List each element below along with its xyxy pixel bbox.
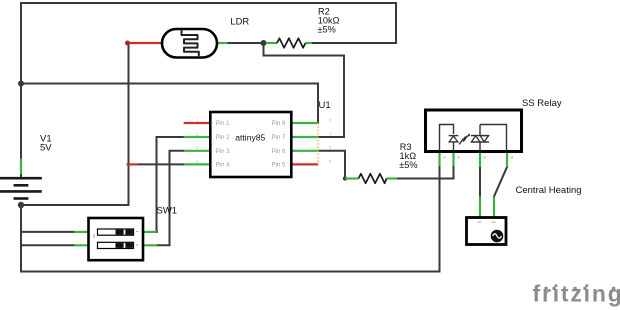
svg-text:5V: 5V — [40, 143, 52, 154]
svg-text:LDR: LDR — [230, 16, 249, 27]
svg-text:attiny85: attiny85 — [235, 132, 265, 142]
svg-text:Central Heating: Central Heating — [516, 185, 582, 196]
svg-text:Pin 6: Pin 6 — [272, 149, 286, 155]
svg-text:Pin 3: Pin 3 — [216, 149, 230, 155]
svg-text:SS Relay: SS Relay — [522, 98, 562, 109]
svg-text:±5%: ±5% — [399, 160, 417, 170]
svg-text:Pin 8: Pin 8 — [272, 121, 286, 127]
svg-text:U1: U1 — [319, 100, 331, 111]
svg-text:SW1: SW1 — [157, 206, 178, 217]
svg-text:±5%: ±5% — [318, 25, 336, 35]
svg-text:Pin 7: Pin 7 — [272, 135, 286, 141]
svg-text:Pin 4: Pin 4 — [216, 163, 230, 169]
svg-text:Pin 2: Pin 2 — [216, 135, 230, 141]
svg-text:Pin 5: Pin 5 — [272, 163, 286, 169]
svg-text:Pin 1: Pin 1 — [216, 121, 230, 127]
svg-text:fritzing: fritzing — [533, 281, 620, 307]
